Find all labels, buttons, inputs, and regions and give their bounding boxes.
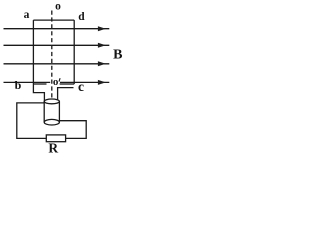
arrowhead 3 — [98, 61, 106, 66]
axis oo' dashed — [51, 11, 53, 99]
svg-text:b: b — [15, 78, 22, 92]
coil bottom side o'-c — [60, 83, 75, 85]
svg-text:c: c — [78, 79, 84, 94]
coil top side ad — [33, 19, 74, 21]
arrowhead 2 — [98, 43, 106, 48]
field line 1 — [4, 28, 110, 30]
cylinder right side — [58, 101, 60, 122]
arrowhead 1 — [98, 26, 106, 31]
cylinder left side — [43, 101, 45, 122]
right lead wire down to slip ring — [58, 88, 74, 100]
svg-text:R: R — [48, 140, 58, 155]
brush wire left — [17, 103, 47, 138]
svg-text:B: B — [113, 47, 122, 62]
coil right side dc — [73, 20, 75, 84]
arrowhead 4 — [98, 80, 106, 85]
slip ring cylinder top ellipse — [44, 99, 59, 104]
svg-text:o: o — [53, 76, 59, 88]
field line 3 — [4, 63, 110, 65]
resistor R box — [46, 135, 65, 142]
svg-text:o: o — [55, 1, 61, 13]
svg-text:d: d — [78, 11, 85, 23]
coil bottom side b-o' — [33, 83, 46, 85]
coil left side ab — [32, 20, 34, 84]
field line 4 — [4, 81, 51, 83]
svg-text:a: a — [24, 9, 30, 21]
left lead wire from b down to slip ring — [33, 84, 44, 102]
label o-prime tick — [59, 78, 60, 81]
brush wire right — [59, 121, 86, 139]
cylinder bottom ellipse — [44, 119, 59, 125]
field line 2 — [4, 44, 110, 46]
